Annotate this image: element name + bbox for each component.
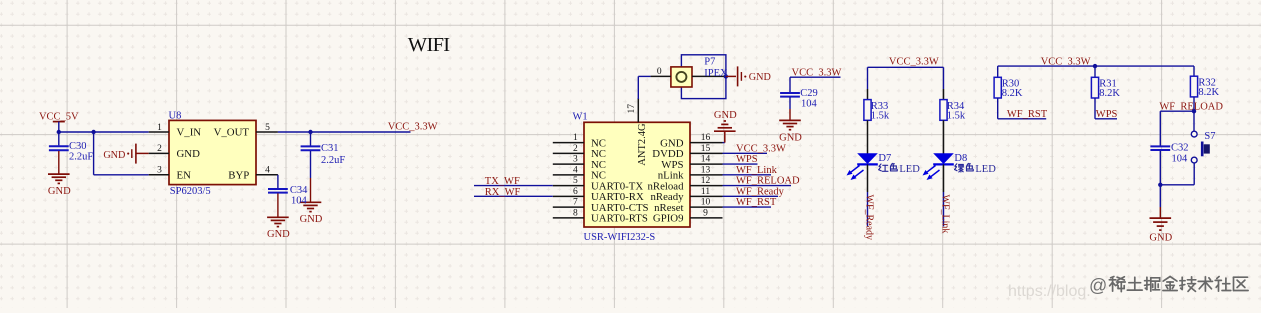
svg-text:C30: C30 [69, 141, 87, 152]
capacitor C30 [49, 132, 93, 163]
svg-text:V_OUT: V_OUT [214, 127, 250, 139]
wire WPS [723, 163, 758, 165]
wire WF_Ready [723, 195, 779, 197]
svg-text:C29: C29 [800, 88, 818, 99]
pin 9 GPIO9 [653, 208, 723, 224]
svg-text:GND: GND [48, 186, 71, 197]
capacitor C32 [1150, 111, 1188, 185]
svg-text:13: 13 [701, 165, 711, 175]
svg-text:GND: GND [177, 148, 201, 160]
svg-text:VCC_3.3W: VCC_3.3W [388, 121, 438, 132]
svg-text:ANT2.4G: ANT2.4G [637, 123, 648, 166]
capacitor C34 [268, 185, 308, 207]
svg-text:1.5k: 1.5k [947, 110, 966, 121]
LED D8 [923, 153, 954, 180]
pin 16 GND [660, 133, 722, 149]
svg-text:USR-WIFI232-S: USR-WIFI232-S [584, 232, 656, 243]
resistor R34 [940, 100, 966, 122]
LED D7 [847, 153, 878, 180]
wire R34 to D8 [943, 120, 945, 153]
svg-text:IPEX: IPEX [704, 68, 728, 79]
svg-text:3: 3 [573, 155, 578, 165]
svg-text:11: 11 [701, 187, 710, 197]
svg-text:8.2K: 8.2K [1198, 87, 1219, 98]
svg-text:WIFI: WIFI [408, 34, 450, 56]
resistor R31 [1091, 66, 1120, 99]
svg-text:GND: GND [300, 214, 323, 225]
svg-text:9: 9 [703, 208, 708, 218]
pin 3 NC [553, 155, 606, 171]
svg-text:104: 104 [1172, 154, 1189, 165]
resistor R33 [864, 100, 890, 122]
pin 5 V_OUT [214, 123, 278, 139]
svg-text:7: 7 [573, 198, 578, 208]
svg-text:UART0-RTS: UART0-RTS [591, 213, 648, 225]
ground GND under C30 [48, 174, 70, 183]
wire GND to U8 pin2 [136, 152, 149, 154]
svg-text:3: 3 [157, 166, 162, 176]
svg-text:17: 17 [627, 104, 637, 114]
svg-text:2.2uF: 2.2uF [69, 152, 93, 163]
op-amp U8 body [169, 120, 256, 184]
svg-text:8: 8 [573, 208, 578, 218]
capacitor C29 [780, 88, 818, 110]
svg-text:WPS: WPS [1096, 109, 1118, 120]
resistor R32 [1190, 66, 1219, 98]
wire VCC_5V to U8 pin1 [59, 131, 149, 133]
svg-text:@: @ [1089, 276, 1107, 296]
module W1 body [584, 122, 690, 227]
node junction C32/S7 [1158, 183, 1162, 187]
svg-text:VCC_3.3W: VCC_3.3W [736, 143, 786, 154]
watermark url text [1008, 283, 1091, 300]
svg-text:C34: C34 [290, 185, 308, 196]
wire R33 to D7 [867, 120, 869, 153]
wire VCC_3.3W [723, 152, 768, 154]
capacitor C31 [301, 132, 346, 166]
wire C31 to ground [310, 151, 312, 202]
pin 1 V_IN [149, 123, 202, 139]
pin 11 nReady [651, 187, 723, 203]
svg-text:VCC_3.3W: VCC_3.3W [889, 56, 939, 67]
svg-text:2: 2 [157, 144, 162, 154]
wire to ground [1159, 185, 1161, 218]
svg-text:RX_WF: RX_WF [485, 187, 521, 198]
svg-text:104: 104 [291, 196, 308, 207]
wire D8 cathode WF_Link [943, 164, 945, 226]
svg-text:C32: C32 [1171, 143, 1189, 154]
svg-text:EN: EN [177, 169, 192, 181]
wire R30 to WF_RST [998, 98, 1046, 119]
wire BYP to C34 [277, 175, 279, 189]
wire R32 to WF_RELOAD [1193, 97, 1195, 111]
svg-text:10: 10 [701, 198, 711, 208]
pin 0 of P7 [651, 67, 671, 77]
svg-text:V_IN: V_IN [177, 127, 202, 139]
node junction WF_RELOAD [1192, 109, 1196, 113]
wire C29 to ground [789, 97, 791, 120]
pin 2 GND [149, 144, 200, 160]
node junction P7 shield [724, 74, 728, 78]
svg-text:GND: GND [714, 110, 737, 121]
svg-text:WF_RST: WF_RST [1007, 109, 1048, 120]
svg-text:GND: GND [103, 150, 125, 161]
pin 5 UART0-TX [553, 176, 644, 192]
wire WF_Link [723, 174, 772, 176]
wire S7 to junction [1160, 163, 1194, 185]
svg-text:15: 15 [701, 144, 711, 154]
pin 4 BYP [228, 166, 278, 182]
svg-text:2.2uF: 2.2uF [321, 155, 345, 166]
svg-text:WF_Ready: WF_Ready [736, 186, 785, 197]
wire V_OUT to VCC_3.3W [278, 131, 411, 133]
wire shield to ground [726, 75, 736, 77]
wire WF_RELOAD [723, 185, 792, 187]
svg-text:12: 12 [701, 176, 711, 186]
wire to S7 [1193, 111, 1195, 131]
svg-text:GND: GND [267, 229, 290, 240]
svg-text:WF_RELOAD: WF_RELOAD [736, 176, 800, 187]
svg-text:C31: C31 [321, 143, 339, 154]
svg-text:WF_Ready: WF_Ready [864, 195, 875, 241]
svg-text:TX_WF: TX_WF [485, 176, 520, 187]
power ground GND at U8 pin2 [103, 144, 136, 164]
node junction EN branch [91, 130, 95, 134]
ground GND under C32 [1150, 218, 1172, 230]
svg-text:8.2K: 8.2K [1002, 88, 1023, 99]
svg-text:2: 2 [573, 144, 578, 154]
wire C30 to ground [58, 151, 60, 174]
svg-text:W1: W1 [573, 112, 588, 123]
pin 3 EN [149, 166, 191, 182]
wire RX_WF [474, 195, 553, 197]
svg-text:4: 4 [573, 165, 578, 175]
svg-text:D8: D8 [954, 153, 967, 164]
pin 15 DVDD [652, 144, 722, 160]
svg-text:SP6203/5: SP6203/5 [170, 186, 211, 197]
ground GND at pin16 [714, 121, 736, 131]
pin P7 shield [692, 75, 726, 77]
wire D7 cathode WF_Ready [867, 164, 869, 226]
pin 1 NC [553, 133, 606, 149]
pin 7 UART0-CTS [553, 198, 649, 214]
ground GND under C29 [779, 120, 801, 129]
pin 14 WPS [661, 155, 722, 171]
connector P7 body [671, 67, 692, 87]
node junction R31 [1093, 64, 1097, 68]
wire ANT to P7 [638, 76, 650, 99]
svg-text:GND: GND [1149, 233, 1172, 244]
svg-text:GND: GND [779, 132, 802, 143]
svg-text:4: 4 [265, 166, 270, 176]
svg-text:8.2K: 8.2K [1099, 88, 1120, 99]
wire pin16 to ground [723, 131, 725, 142]
svg-text:D7: D7 [878, 153, 891, 164]
pin 10 nReset [654, 198, 722, 214]
wire EN branch [94, 132, 149, 175]
svg-text:WF_Link: WF_Link [940, 195, 951, 234]
switch S7 [1191, 131, 1215, 163]
pin 17 ANT2.4G [627, 98, 648, 166]
svg-text:BYP: BYP [228, 169, 249, 181]
svg-text:16: 16 [701, 133, 711, 143]
pin 2 NC [553, 144, 606, 160]
svg-text:1: 1 [573, 133, 578, 143]
power ground GND at P7 [738, 66, 771, 86]
svg-text:0: 0 [657, 67, 662, 77]
wire WF_RELOAD to C32 [1160, 110, 1194, 112]
svg-text:LED: LED [899, 164, 920, 175]
wire R31 to WPS [1095, 98, 1117, 119]
svg-text:1: 1 [157, 123, 162, 133]
pin 12 nReload [648, 176, 723, 192]
wire TX_WF [474, 185, 553, 187]
svg-text:1.5k: 1.5k [871, 110, 890, 121]
svg-text:5: 5 [573, 176, 578, 186]
value green LED label [955, 163, 997, 175]
svg-text:104: 104 [801, 99, 818, 110]
wire VCC_3.3W to C29 [790, 77, 841, 92]
svg-text:U8: U8 [169, 110, 182, 121]
wire C34 to ground [277, 193, 279, 217]
svg-text:14: 14 [701, 155, 711, 165]
wire WF_RST [723, 206, 772, 208]
power port VCC_5V [39, 112, 79, 133]
svg-text:https://blog.: https://blog. [1008, 283, 1091, 300]
svg-text:GND: GND [749, 72, 771, 83]
value red LED label [879, 163, 921, 175]
ground GND under C31 [300, 202, 322, 211]
pin 8 UART0-RTS [553, 208, 648, 224]
watermark juejin community [1089, 276, 1248, 296]
svg-text:WF_RST: WF_RST [736, 197, 777, 208]
svg-text:P7: P7 [704, 57, 715, 68]
pin 4 NC [553, 165, 606, 181]
wire VCC to R33 R34 [868, 67, 944, 89]
resistor R30 [994, 66, 1023, 99]
pin 6 UART0-RX [553, 187, 644, 203]
pin R34 top [943, 89, 945, 100]
pin 13 nLink [658, 165, 723, 181]
ground GND under C34 [267, 217, 289, 226]
wire P7 shield loop [681, 55, 726, 99]
node junction C31 [308, 130, 312, 134]
node junction VCC_5V/C30 [57, 130, 61, 134]
wire VCC rail [998, 65, 1194, 67]
svg-text:GPIO9: GPIO9 [653, 213, 684, 225]
svg-text:LED: LED [975, 164, 996, 175]
svg-text:5: 5 [265, 123, 270, 133]
pin R33 top [867, 89, 869, 100]
svg-text:S7: S7 [1204, 131, 1215, 142]
svg-text:WF_Link: WF_Link [736, 165, 778, 176]
svg-text:WPS: WPS [736, 154, 758, 165]
svg-text:6: 6 [573, 187, 578, 197]
